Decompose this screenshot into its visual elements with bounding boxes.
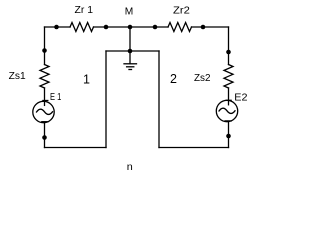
- wire right rail upper: [228, 27, 230, 65]
- svg-text:1: 1: [83, 73, 90, 87]
- node M: [128, 25, 133, 30]
- node dot Zr2 right: [201, 25, 206, 30]
- resistor Zs1: [40, 65, 49, 89]
- resistor Zr1: [70, 23, 94, 32]
- wire E2 to Zs2: [228, 88, 230, 105]
- source E2: [216, 100, 237, 121]
- wire inner top horizontal: [106, 50, 159, 52]
- svg-text:M: M: [125, 7, 134, 18]
- wire Zs1 to E1: [44, 88, 46, 105]
- node dot below E1: [42, 135, 47, 140]
- wire node M to Zr2: [130, 26, 168, 28]
- resistor Zr2: [168, 23, 191, 32]
- resistor Zs2: [224, 65, 233, 89]
- svg-text:Zr 1: Zr 1: [75, 5, 94, 16]
- wire Zr1 to node M: [94, 26, 131, 28]
- svg-text:Zs1: Zs1: [9, 71, 26, 82]
- wire right rail lower: [228, 122, 230, 147]
- node dot Zr1 right: [104, 25, 109, 30]
- wire top rail left (corner to Zr1): [45, 26, 71, 28]
- wire Zr2 to top-right corner: [192, 26, 229, 28]
- source E1: [33, 101, 54, 123]
- ground: [124, 64, 137, 70]
- wire inner-left vertical: [105, 51, 107, 148]
- wire left rail upper: [44, 27, 46, 65]
- node dot left rail: [42, 48, 47, 53]
- svg-text:E2: E2: [234, 93, 248, 104]
- svg-text:n: n: [127, 162, 133, 173]
- node dot ground junction: [128, 49, 133, 54]
- node dot right rail: [226, 50, 231, 55]
- wire inner-right vertical: [158, 51, 160, 148]
- svg-text:2: 2: [170, 72, 177, 86]
- wire node M down to ground: [129, 27, 131, 64]
- node dot below E2: [226, 134, 231, 139]
- svg-text:E 1: E 1: [50, 92, 62, 103]
- svg-text:Zs2: Zs2: [194, 73, 211, 84]
- svg-text:Zr2: Zr2: [173, 5, 190, 16]
- node dot Zr2 left: [153, 25, 158, 30]
- node dot top rail left: [54, 25, 59, 30]
- wire bottom rail left: [45, 147, 107, 149]
- wire E1 to bottom-left corner: [44, 122, 46, 147]
- wire bottom rail right: [159, 147, 229, 149]
